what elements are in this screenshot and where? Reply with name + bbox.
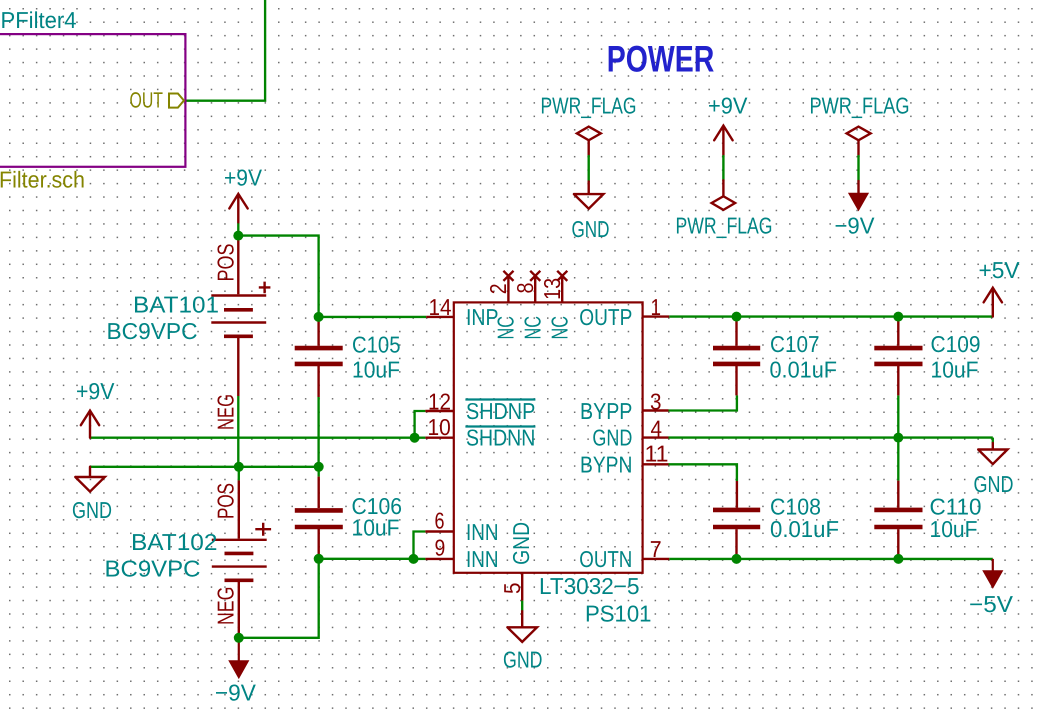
- svg-text:NEG: NEG: [213, 394, 239, 430]
- svg-text:−9V: −9V: [835, 213, 876, 239]
- svg-text:−9V: −9V: [215, 680, 257, 706]
- svg-text:NEG: NEG: [213, 587, 239, 625]
- svg-text:+9V: +9V: [224, 165, 263, 191]
- svg-text:NC: NC: [546, 316, 572, 340]
- svg-text:NC: NC: [519, 316, 545, 340]
- svg-text:NC: NC: [493, 316, 519, 340]
- svg-text:C109: C109: [931, 331, 981, 357]
- svg-text:GND: GND: [974, 471, 1014, 497]
- svg-text:−5V: −5V: [969, 591, 1014, 617]
- svg-text:GND: GND: [72, 497, 112, 523]
- svg-text:OUT: OUT: [130, 88, 164, 113]
- svg-text:BAT101: BAT101: [133, 291, 219, 317]
- svg-text:13: 13: [539, 278, 565, 300]
- svg-text:Filter.sch: Filter.sch: [0, 167, 85, 193]
- svg-text:+9V: +9V: [708, 93, 748, 119]
- svg-text:4: 4: [651, 415, 663, 441]
- svg-text:POS: POS: [213, 244, 239, 282]
- svg-text:PS101: PS101: [585, 601, 652, 627]
- svg-text:POS: POS: [213, 483, 239, 519]
- svg-text:OUTN: OUTN: [579, 546, 632, 572]
- svg-text:BYPN: BYPN: [580, 452, 632, 478]
- svg-text:SHDNP: SHDNP: [466, 398, 535, 424]
- svg-text:C105: C105: [352, 331, 401, 357]
- svg-text:C107: C107: [770, 331, 820, 357]
- svg-text:INN: INN: [466, 519, 499, 545]
- svg-text:0.01uF: 0.01uF: [770, 516, 839, 542]
- svg-text:6: 6: [435, 508, 445, 534]
- svg-text:BYPP: BYPP: [580, 398, 632, 424]
- svg-text:INN: INN: [466, 546, 499, 572]
- svg-text:OUTP: OUTP: [579, 304, 632, 330]
- svg-text:+5V: +5V: [979, 257, 1021, 283]
- svg-text:POWER: POWER: [607, 39, 715, 80]
- svg-text:2: 2: [485, 283, 511, 294]
- svg-text:7: 7: [650, 536, 662, 562]
- svg-text:SHDNN: SHDNN: [466, 425, 535, 451]
- svg-text:GND: GND: [592, 425, 632, 451]
- svg-text:GND: GND: [572, 216, 610, 242]
- svg-text:PWR_FLAG: PWR_FLAG: [541, 93, 637, 119]
- svg-text:14: 14: [429, 294, 452, 320]
- svg-text:11: 11: [645, 441, 669, 467]
- svg-text:5: 5: [499, 583, 525, 595]
- svg-text:10: 10: [428, 414, 451, 440]
- svg-text:3: 3: [650, 388, 662, 414]
- svg-text:PWR_FLAG: PWR_FLAG: [810, 93, 910, 119]
- svg-text:PWR_FLAG: PWR_FLAG: [676, 213, 773, 239]
- svg-text:GND: GND: [508, 522, 534, 565]
- svg-text:LT3032−5: LT3032−5: [539, 573, 640, 599]
- svg-text:PFilter4: PFilter4: [1, 7, 77, 33]
- svg-text:+9V: +9V: [76, 378, 115, 404]
- svg-text:12: 12: [428, 388, 451, 414]
- svg-text:9: 9: [435, 534, 446, 560]
- svg-text:10uF: 10uF: [352, 515, 400, 541]
- svg-text:GND: GND: [503, 647, 543, 673]
- svg-text:10uF: 10uF: [931, 356, 979, 382]
- svg-text:10uF: 10uF: [930, 516, 978, 542]
- svg-text:10uF: 10uF: [352, 356, 400, 382]
- svg-text:BC9VPC: BC9VPC: [107, 318, 198, 344]
- svg-text:BC9VPC: BC9VPC: [105, 555, 201, 581]
- svg-text:0.01uF: 0.01uF: [770, 356, 838, 382]
- svg-text:1: 1: [651, 294, 662, 320]
- svg-text:BAT102: BAT102: [131, 529, 218, 555]
- svg-text:8: 8: [512, 283, 538, 294]
